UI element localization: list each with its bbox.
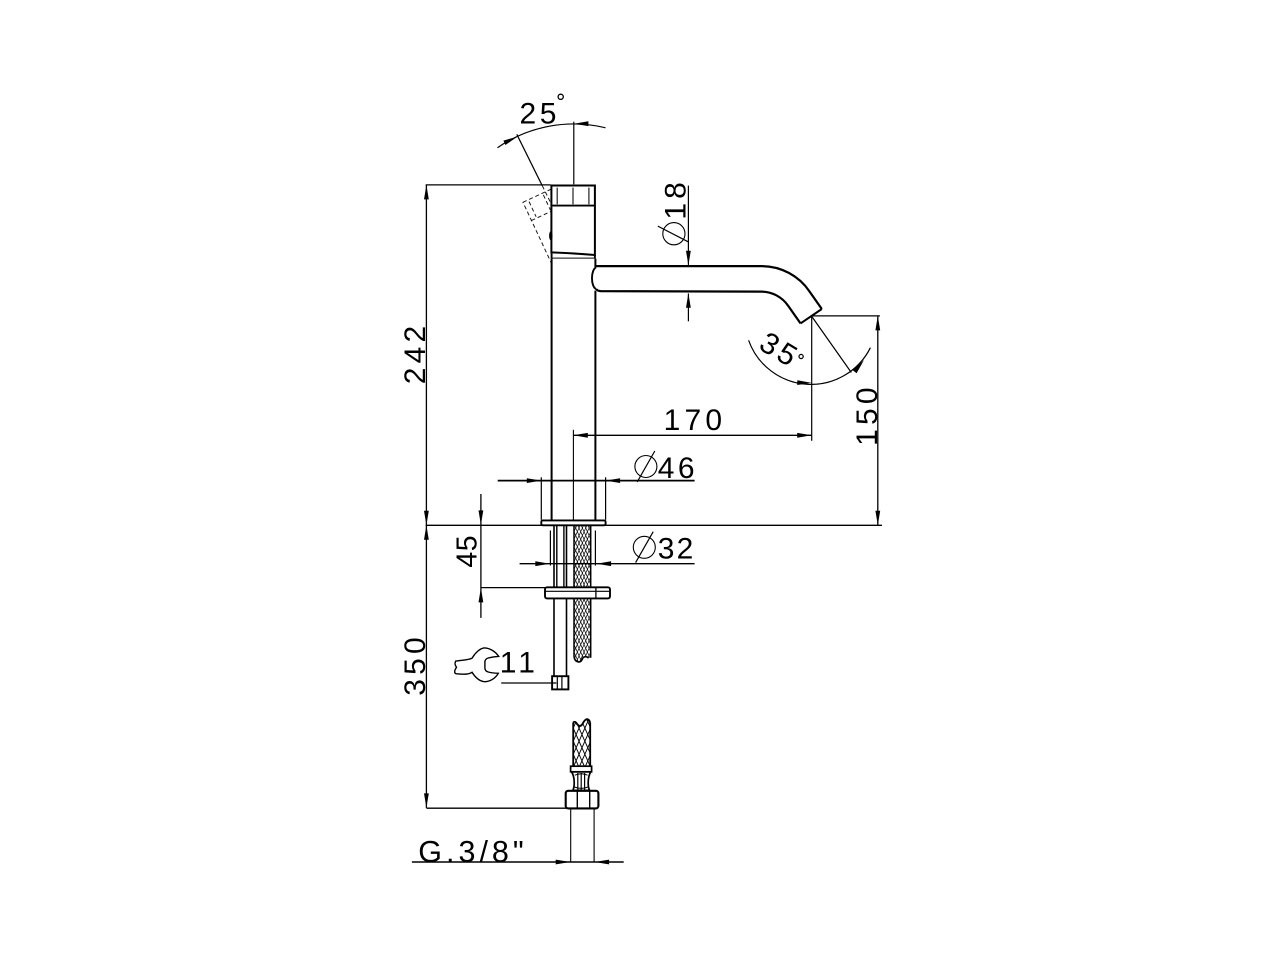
spout outlet cut bbox=[801, 309, 822, 323]
dim G3/8 bbox=[412, 861, 624, 863]
base flange bbox=[541, 520, 605, 525]
crimp section bbox=[572, 772, 591, 791]
tilted centerline of open handle bbox=[517, 134, 543, 186]
dim 25 deg arc bbox=[498, 124, 606, 148]
leader line bbox=[501, 682, 556, 684]
extension line 170 left / body centerline bbox=[572, 430, 574, 520]
svg-text:11: 11 bbox=[500, 646, 539, 679]
faucet body bbox=[552, 259, 596, 521]
hex nut G3/8 bbox=[566, 791, 599, 809]
svg-text:46: 46 bbox=[658, 452, 698, 485]
svg-text:242: 242 bbox=[399, 322, 432, 385]
flexible hose upper part bbox=[574, 442, 591, 743]
supply pipe below deck bbox=[553, 526, 555, 676]
threaded pipe end bbox=[570, 808, 572, 862]
svg-text:18: 18 bbox=[660, 178, 693, 219]
svg-text:350: 350 bbox=[399, 633, 432, 696]
knurl marks bbox=[556, 188, 558, 205]
wrench symbol bbox=[455, 648, 499, 682]
svg-text:32: 32 bbox=[658, 533, 696, 566]
lever indicator tick bbox=[549, 231, 552, 240]
dim 35 deg bbox=[812, 317, 851, 373]
horseshoe washer bbox=[545, 587, 610, 598]
handle open position (dashed, 25 deg) bbox=[523, 184, 593, 268]
dim dia32 bbox=[520, 563, 695, 565]
stud nut (wrench 11) bbox=[552, 676, 568, 689]
svg-text:170: 170 bbox=[664, 404, 727, 437]
neck parting bbox=[551, 253, 553, 259]
dim 242 bbox=[425, 185, 427, 525]
o32 extension lines bbox=[549, 531, 551, 566]
spout bbox=[592, 267, 596, 289]
dim 150 bbox=[877, 316, 879, 525]
svg-text:45: 45 bbox=[451, 535, 483, 568]
svg-text:150: 150 bbox=[851, 383, 884, 446]
handle knob bbox=[551, 186, 595, 256]
dim 170 bbox=[573, 434, 811, 436]
handle centerline (closed) bbox=[573, 122, 575, 185]
svg-text:25: 25 bbox=[520, 98, 561, 131]
svg-text:G.3/8": G.3/8" bbox=[418, 835, 527, 869]
flexible hose lower part bbox=[573, 624, 590, 845]
dim dia46 bbox=[540, 477, 542, 520]
dim dia18 bbox=[687, 186, 689, 265]
hose collar bbox=[571, 766, 592, 772]
dim 45 bbox=[480, 494, 482, 618]
deck / counter line bbox=[426, 524, 882, 526]
extension line top bbox=[426, 184, 551, 186]
dim 350 bbox=[425, 525, 427, 808]
